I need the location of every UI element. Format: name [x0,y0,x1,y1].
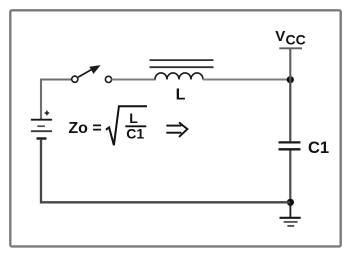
inductor L [150,60,214,79]
svg-text:V: V [275,28,285,45]
ground [280,202,301,226]
label VCC [275,28,305,48]
formula Zo = sqrt(L/C1) [68,106,147,145]
node junction bottom [287,199,294,206]
capacitor C1 [279,142,301,149]
wire battery to bottom [41,140,290,203]
wire inductor to node [203,78,290,80]
wire node to capacitor [289,80,291,142]
Vcc terminal [279,48,302,79]
svg-text:C1: C1 [126,126,144,142]
node junction top [287,76,294,83]
svg-text:L: L [129,110,138,126]
wire switch to inductor [112,78,156,80]
svg-text:C1: C1 [308,139,329,157]
wire battery top to switch [41,80,71,120]
svg-text:Zo =: Zo = [68,120,101,137]
wire capacitor to bottom node [289,151,291,203]
battery B1 [31,111,52,139]
svg-text:CC: CC [286,32,306,48]
svg-text:L: L [176,86,186,103]
switch S1 [72,65,112,82]
double arrow [166,122,187,136]
